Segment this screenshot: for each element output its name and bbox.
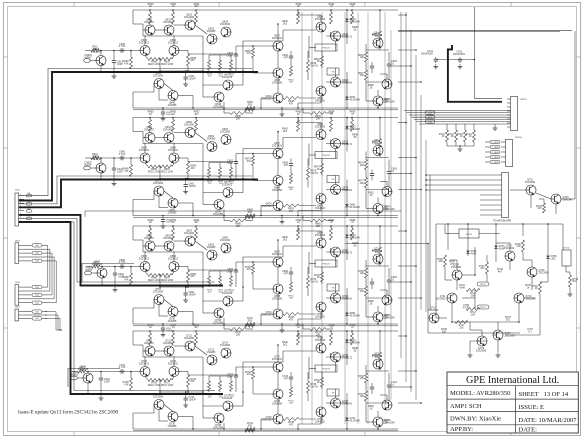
rail node wire ch1 <box>160 70 203 72</box>
Q701 Q703 wires <box>510 189 526 191</box>
amp channel 1 top supply rail wire <box>133 9 398 11</box>
lower-left transistor Q705 ch3 <box>154 295 164 305</box>
transistor Q644 ch1 <box>273 93 283 103</box>
transistor Q734 ch4 <box>273 414 283 424</box>
connector CN701 body <box>511 97 518 131</box>
collector bus wires ch1 <box>142 24 144 36</box>
connector CN703 body <box>506 140 513 167</box>
lower transistor Q647 ch1 <box>223 80 233 90</box>
svg-text:-56V: -56V <box>428 117 433 119</box>
svg-text:TH-BOX: TH-BOX <box>322 47 330 49</box>
signal feeder thick wire channel 1 <box>19 72 259 201</box>
output long wire <box>574 31 576 195</box>
ground near CN701 <box>494 126 496 129</box>
signal feeder thin wire channel 4 <box>19 222 216 391</box>
resistor R647 ch1 <box>365 70 368 80</box>
IC701 wires <box>445 233 459 235</box>
svg-text:R7034K7: R7034K7 <box>536 205 542 210</box>
svg-text:C66647P: C66647P <box>282 162 288 167</box>
rail series resistor R652 ch1 <box>245 107 255 110</box>
transistor Q691 ch3 <box>164 241 174 251</box>
input series resistor R611 <box>91 49 99 52</box>
connector CN705 body <box>502 173 509 218</box>
svg-text:R646100: R646100 <box>358 54 364 59</box>
diode D705 <box>546 256 549 259</box>
connector J607 body <box>15 309 19 321</box>
svg-text:6: 6 <box>20 213 21 215</box>
amp channel 3 bottom supply rail wire <box>133 323 398 325</box>
transistor Q643 ch1 <box>331 77 341 87</box>
diff pair wires ch4 <box>144 356 146 367</box>
svg-text:R703470: R703470 <box>245 266 251 271</box>
resistor R720 ch4 <box>149 333 152 345</box>
lower wires ch4 <box>133 412 154 414</box>
feedback node wires ch1 <box>188 53 236 55</box>
resistor R692 ch3 <box>195 228 198 240</box>
resistor R681 below ch2 <box>310 219 326 222</box>
resistor R729 feedback ch4 <box>187 375 190 387</box>
input ground ch4 <box>100 396 102 399</box>
svg-text:C618220P: C618220P <box>382 98 388 104</box>
thermal bias box TH4 ch4 <box>315 365 337 372</box>
capacitor C724 ch4 <box>371 385 373 387</box>
transistor Q636 diff pair ch1 <box>169 46 179 56</box>
svg-text:ISSUE: E: ISSUE: E <box>519 404 544 411</box>
resistor R695 ch3 <box>351 228 354 240</box>
diode D691 ch3 <box>345 313 348 316</box>
lower-left transistor Q736 ch4 <box>168 412 178 422</box>
svg-text:CN602INPUT: CN602INPUT <box>84 162 92 167</box>
resistor R723 <box>464 130 467 142</box>
transistor Q640 ch1 <box>331 31 341 41</box>
capacitor C726 vas ch4 <box>290 375 292 377</box>
input ground ch2 <box>113 181 115 184</box>
rail series resistor R653 ch1 <box>245 108 255 111</box>
input filter cap C612 <box>113 59 115 61</box>
transistor Q701 <box>526 185 536 195</box>
mid resistor trio R730 R731 R732 ch4 <box>208 381 211 391</box>
resistor R654 vas ch1 <box>290 66 293 76</box>
resistor R646 ch1 <box>365 52 368 62</box>
protection left rail <box>435 224 437 318</box>
rail series resistor R742 ch4 <box>245 428 255 431</box>
left harness vertical wires <box>46 245 49 287</box>
svg-text:R63847K: R63847K <box>123 60 129 66</box>
thick standby feed line <box>448 45 502 102</box>
transistor Q634 ch1 <box>221 27 231 37</box>
output transistor Q656 ch1 <box>382 79 392 89</box>
diode D720 ch4 <box>345 340 348 343</box>
transistor Q673 ch2 <box>331 185 341 195</box>
input wires ch4 <box>77 377 83 379</box>
svg-text:MODEL: AVR280/350: MODEL: AVR280/350 <box>450 390 510 397</box>
lower wires ch2 <box>133 199 154 201</box>
bias box 2 ch1 <box>327 68 339 75</box>
right column wires ch4 <box>365 383 367 391</box>
rail series resistor R713 ch3 <box>245 324 255 327</box>
transistor Q641 ch1 <box>373 38 383 48</box>
capacitor C634 ch1 <box>371 64 373 66</box>
amp channel 4 left edge wires <box>132 331 134 345</box>
transistor Q709 <box>527 267 537 277</box>
vertical supply column wires right edge <box>384 12 386 410</box>
diff pair wires ch3 <box>144 251 146 262</box>
lower-left transistor Q645 ch1 <box>154 79 164 89</box>
signal feeder thin wire channel 1 <box>19 69 253 196</box>
diode D660 ch2 <box>345 126 348 129</box>
diode D721 ch4 <box>345 418 348 421</box>
bias resistor pair ch3 <box>321 272 324 282</box>
resistor R736 ch4 <box>365 373 368 383</box>
protection resistors <box>444 255 447 267</box>
transistor Q723 ch4 <box>207 355 217 365</box>
connector J605 body <box>15 285 19 306</box>
capacitor C666 vas ch2 <box>290 162 292 164</box>
resistor R645 ch1 <box>379 31 382 41</box>
capacitor C692 miller ch3 <box>235 268 237 270</box>
collector bus wires ch4 <box>142 345 144 357</box>
VAS wires ch2 <box>277 159 279 176</box>
svg-text:J607: J607 <box>15 307 21 309</box>
svg-text:C722100P: C722100P <box>227 373 233 378</box>
resistor R698 input bias ch3 <box>130 273 133 285</box>
transistor Q661 ch2 <box>164 133 174 143</box>
resistor R638 input bias ch1 <box>130 57 133 69</box>
transistor Q690 ch3 <box>145 241 155 251</box>
input series resistor R641 <box>78 370 86 373</box>
resistor R699 feedback ch3 <box>187 270 190 282</box>
lower-left transistor Q675 ch2 <box>154 186 164 196</box>
lower wires ch1 <box>133 91 154 93</box>
resistor R675 ch2 <box>379 139 382 149</box>
protection right rail <box>562 224 564 250</box>
lower transistor Q648 ch1 <box>214 92 224 102</box>
svg-text:C662100P: C662100P <box>227 160 233 165</box>
svg-text:R736100: R736100 <box>358 375 364 380</box>
transistor Q703 <box>551 194 561 204</box>
svg-text:TH-BOX: TH-BOX <box>322 155 330 157</box>
transistor Q707 <box>505 251 515 261</box>
amp channel 2 top supply rail wire <box>133 117 398 119</box>
resistor R673 ch2 <box>252 156 255 166</box>
feedback node wires ch4 <box>188 374 236 376</box>
rail series resistor R712 ch3 <box>245 323 255 326</box>
transistor Q672 ch2 <box>316 194 326 204</box>
emitter resistor R697 ch3 <box>160 274 172 277</box>
amp channel 4 bottom rail second wire <box>133 430 398 432</box>
amp channel 2 bottom rail second wire <box>133 216 398 218</box>
svg-text:J603: J603 <box>15 240 21 242</box>
capacitor C694 ch3 <box>371 280 373 282</box>
standby vertical wire <box>473 7 475 60</box>
svg-text:DWN.BY: XiaoXie: DWN.BY: XiaoXie <box>450 416 501 423</box>
rail series resistor R682 ch2 <box>245 214 255 217</box>
svg-text:R72847K: R72847K <box>123 381 129 386</box>
mid bus wires ch3 <box>283 245 316 247</box>
resistor R679 ch2 <box>307 168 310 180</box>
resistor R678 ch2 <box>283 204 299 207</box>
relay RL701 box <box>562 250 571 266</box>
svg-text:Issue-E update Qx13 form 2SC34: Issue-E update Qx13 form 2SC3421to 2SC26… <box>18 409 119 416</box>
svg-text:C_SEN: C_SEN <box>492 152 499 154</box>
svg-text:7: 7 <box>20 217 21 219</box>
resistor R714 vas ch3 <box>290 282 293 292</box>
input wires ch1 <box>90 60 96 62</box>
svg-text:GND: GND <box>428 121 433 123</box>
mid bus wires ch2 <box>283 137 316 139</box>
resistor R663 ch2 <box>297 120 300 132</box>
svg-text:C618220P: C618220P <box>382 206 388 211</box>
input jack CN604 <box>71 376 78 380</box>
rail series resistor R683 ch2 <box>245 216 255 219</box>
thermal bias box TH3 ch3 <box>315 260 337 267</box>
transistor Q666 diff pair ch2 <box>169 153 179 163</box>
output transistor Q679 ch2 <box>373 204 383 214</box>
transistor Q729 ch4 <box>316 343 326 353</box>
resistor R661 ch2 <box>172 120 175 132</box>
resistor R633 ch1 <box>297 12 300 24</box>
thin wire to CN701 pin2 <box>473 60 475 99</box>
long mid sheet wire <box>85 210 401 212</box>
transistor Q642 ch1 <box>316 86 326 96</box>
resistor R680 below ch2 <box>230 219 246 222</box>
resistor R691 ch3 <box>172 228 175 240</box>
svg-text:C6304.7UF: C6304.7UF <box>119 43 126 48</box>
resistor R709 ch3 <box>307 276 310 288</box>
transistor Q669 ch2 <box>316 130 326 140</box>
VAS transistor Q727 ch4 <box>273 362 283 372</box>
stadium labels on J601 wires <box>26 195 32 197</box>
input jack CN602 <box>84 166 91 170</box>
feedback node wires ch3 <box>188 269 236 271</box>
junction dots ch4 <box>202 391 204 393</box>
emitter resistor R637 ch1 <box>160 58 172 61</box>
output transistor Q649 ch1 <box>373 96 383 106</box>
svg-text:R70510K: R70510K <box>437 258 443 263</box>
input series resistor R621 <box>91 157 99 160</box>
resistor R648 ch1 <box>283 97 299 100</box>
resistor R664 ch2 <box>330 120 333 132</box>
transistor Q722 ch4 <box>185 341 195 351</box>
resistor R684 vas ch2 <box>290 174 293 184</box>
transistor Q633 ch1 <box>207 34 217 44</box>
resistor R635 ch1 <box>351 12 354 24</box>
resistor R665 ch2 <box>351 120 354 132</box>
transistor Q663 ch2 <box>207 142 217 152</box>
protection wires <box>436 317 447 319</box>
vertical supply column wires spanning sheet <box>301 12 303 424</box>
transistor Q671 ch2 <box>373 146 383 156</box>
bias box 2 ch4 <box>327 389 339 396</box>
svg-text:APP.BY:: APP.BY: <box>450 426 473 433</box>
transistor Q695 diff pair ch3 <box>140 262 150 272</box>
resistor R738 ch4 <box>283 418 299 421</box>
bias resistor pair ch2 <box>321 164 324 174</box>
resistor R677 ch2 <box>365 178 368 188</box>
capacitor C690 input coupling ch3 <box>119 266 121 268</box>
amp channel 4 bottom supply rail wire <box>133 428 398 430</box>
resistor R632 ch1 <box>195 12 198 24</box>
diff pair wires ch2 <box>144 143 146 154</box>
svg-text:C642100P: C642100P <box>104 378 110 383</box>
svg-text:8: 8 <box>20 220 21 222</box>
transistor Q724 ch4 <box>221 348 231 358</box>
svg-text:RL701: RL701 <box>564 248 571 250</box>
svg-text:C_SEN: C_SEN <box>492 142 499 144</box>
rail node wire ch2 <box>160 178 203 180</box>
svg-text:IC701: IC701 <box>466 234 473 236</box>
component label on J603 pin 1 <box>32 244 42 247</box>
transistor Q721 ch4 <box>164 346 174 356</box>
protection box left edge <box>427 244 429 333</box>
ground C701 <box>435 64 437 67</box>
transistor Q713 <box>514 293 524 303</box>
resistor R630 ch1 <box>149 12 152 24</box>
svg-text:SHEET 13 OF 14: SHEET 13 OF 14 <box>519 391 569 398</box>
resistor R631 ch1 <box>172 12 175 24</box>
signal feeder thick wire channel 2 <box>19 180 259 208</box>
lower transistor Q708 ch3 <box>214 308 224 318</box>
transistor Q674 ch2 <box>273 201 283 211</box>
lower wires ch3 <box>133 307 154 309</box>
emitter resistor R636 ch1 <box>148 58 160 61</box>
wire base right diff ch1 <box>179 50 188 52</box>
rail series resistor R743 ch4 <box>245 429 255 432</box>
driver bus wires ch1 <box>320 15 322 22</box>
svg-text:R676100: R676100 <box>358 161 364 167</box>
bias box 2 ch2 <box>327 176 339 183</box>
resistor R711 below ch3 <box>310 328 326 331</box>
VAS transistor Q668 ch2 <box>273 176 283 186</box>
ground stub below ch3 <box>281 328 283 331</box>
transistor Q717 <box>493 330 503 340</box>
output transistor Q746 ch4 <box>382 400 392 410</box>
diode D690 ch3 <box>345 235 348 238</box>
resistor R634 ch1 <box>330 12 333 24</box>
emitter resistor R667 ch2 <box>160 165 172 168</box>
upper row wires ch2 <box>149 132 151 133</box>
transistor Q719 <box>477 336 487 346</box>
mid resistor trio R700 R701 R702 ch3 <box>208 276 211 286</box>
lower-left transistor Q735 ch4 <box>154 400 164 410</box>
lower transistor Q707 ch3 <box>223 296 233 306</box>
transistor Q639 ch1 <box>316 22 326 32</box>
bias resistor pair ch1 <box>321 56 324 66</box>
resistor R662 ch2 <box>195 120 198 132</box>
resistor R733 ch4 <box>252 369 255 379</box>
capacitor C703 <box>459 57 461 59</box>
svg-text:C6604.7UF: C6604.7UF <box>119 150 126 156</box>
resistor R724 <box>473 130 476 142</box>
capacitor C631 with ground ch1 <box>185 75 187 77</box>
resistor R722 ch4 <box>195 333 198 345</box>
input buffer transistor Q639 <box>97 268 107 278</box>
transistor Q632 ch1 <box>185 20 195 30</box>
capacitor C723 ch4 <box>388 383 390 385</box>
transistor Q670 ch2 <box>331 139 341 149</box>
component label on J607 pin 3 <box>32 317 42 320</box>
svg-text:3: 3 <box>20 202 21 204</box>
resistor R706 ch3 <box>365 268 368 278</box>
transistor Q660 ch2 <box>145 133 155 143</box>
component label on J603 pin 3 <box>32 251 42 254</box>
svg-text:TO MAIN BOARD: TO MAIN BOARD <box>493 220 512 223</box>
svg-text:C72647P: C72647P <box>282 375 288 380</box>
input buffer transistor Q629 <box>96 163 106 173</box>
transistor Q699 ch3 <box>316 238 326 248</box>
svg-text:2: 2 <box>20 198 21 200</box>
resistor R703 ch3 <box>252 264 255 274</box>
svg-text:CN701: CN701 <box>520 99 528 101</box>
svg-text:C_SEN: C_SEN <box>492 157 499 159</box>
amp channel 2 bottom supply rail wire <box>133 215 398 217</box>
VAS transistor Q728 ch4 <box>273 389 283 399</box>
output transistor Q686 ch2 <box>382 187 392 197</box>
output transistor Q709 ch3 <box>373 312 383 322</box>
VAS wires ch1 <box>277 51 279 68</box>
VAS wires ch3 <box>277 267 279 284</box>
capacitor C721 with ground ch4 <box>185 396 187 398</box>
decoupling cap C665 below ch2 <box>162 218 164 220</box>
transistor Q715 <box>429 313 439 323</box>
connector J601 pins <box>19 195 24 197</box>
transistor Q693 ch3 <box>207 250 217 260</box>
resistor R721 ch4 <box>172 333 175 345</box>
svg-text:1: 1 <box>20 194 21 196</box>
CN703 pins and labels <box>501 141 506 143</box>
svg-text:C618220P: C618220P <box>382 419 388 424</box>
diode D703 <box>494 246 497 249</box>
svg-text:J601: J601 <box>15 190 21 192</box>
component label on J605 pin 3 <box>32 293 42 296</box>
input wires ch2 <box>90 167 96 169</box>
rail node wire ch3 <box>160 286 203 288</box>
regulator IC701 box <box>459 229 479 238</box>
wire base right diff ch4 <box>179 371 188 373</box>
border zone ticks <box>73 3 75 7</box>
amp channel 2 left edge wires <box>132 118 134 132</box>
mid resistor trio R640 R641 R642 ch1 <box>208 60 211 70</box>
svg-text:+56V: +56V <box>428 112 433 114</box>
svg-text:DATE:: DATE: <box>519 426 538 433</box>
lower transistor Q738 ch4 <box>214 413 224 423</box>
input section box outline ch4 <box>68 369 120 388</box>
transistor Q662 ch2 <box>185 128 195 138</box>
transistor Q705 <box>452 270 462 280</box>
wire base right diff ch3 <box>179 266 188 268</box>
resistor R708 ch3 <box>283 313 299 316</box>
right column wires ch1 <box>365 62 367 70</box>
amp channel 4 top supply rail wire <box>133 330 398 332</box>
resistor R728 input bias ch4 <box>130 378 133 390</box>
input filter cap C622 <box>113 166 115 168</box>
signal feeder thick wire channel 3 <box>19 215 224 286</box>
svg-text:R706100: R706100 <box>358 270 364 275</box>
svg-text:R673470: R673470 <box>245 157 251 163</box>
svg-text:AMP1 SCH: AMP1 SCH <box>450 403 482 410</box>
resistor R724 ch4 <box>330 333 333 345</box>
resistor R705 ch3 <box>379 247 382 257</box>
protection junction dots <box>447 223 449 225</box>
svg-text:R647100: R647100 <box>358 72 364 77</box>
upper row wires ch3 <box>149 240 151 241</box>
rail node wire ch4 <box>160 391 203 393</box>
resistor R735 ch4 <box>379 352 382 362</box>
diode D630 ch1 <box>345 19 348 22</box>
svg-text:C69647P: C69647P <box>282 270 288 275</box>
transistor Q631 ch1 <box>164 25 174 35</box>
protection box bottom edge <box>428 332 520 334</box>
